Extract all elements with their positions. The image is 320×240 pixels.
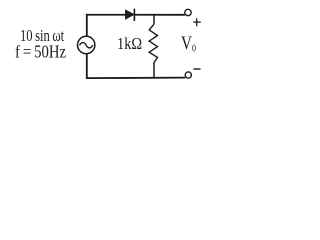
label source frequency: f = 50Hz: [15, 42, 66, 63]
resistor R1: [149, 15, 157, 79]
label resistor value: 1k ohm: [117, 35, 142, 54]
plus sign: [193, 18, 201, 26]
terminal minus circle: [185, 72, 191, 78]
label source value: 10 sin wt: [20, 28, 64, 47]
wire source bottom to bottom rail: [86, 54, 88, 79]
terminal plus circle: [185, 9, 191, 15]
wire top rail right segment (diode cathode to terminal): [134, 14, 185, 16]
wire source top to top rail: [86, 14, 88, 36]
wire top rail left segment (source to diode anode): [86, 14, 126, 16]
label output voltage V0: [181, 33, 196, 55]
minus sign: [193, 68, 200, 70]
wire bottom rail: [86, 77, 185, 80]
diode D1: [126, 9, 135, 21]
voltage source VS: [78, 36, 95, 53]
